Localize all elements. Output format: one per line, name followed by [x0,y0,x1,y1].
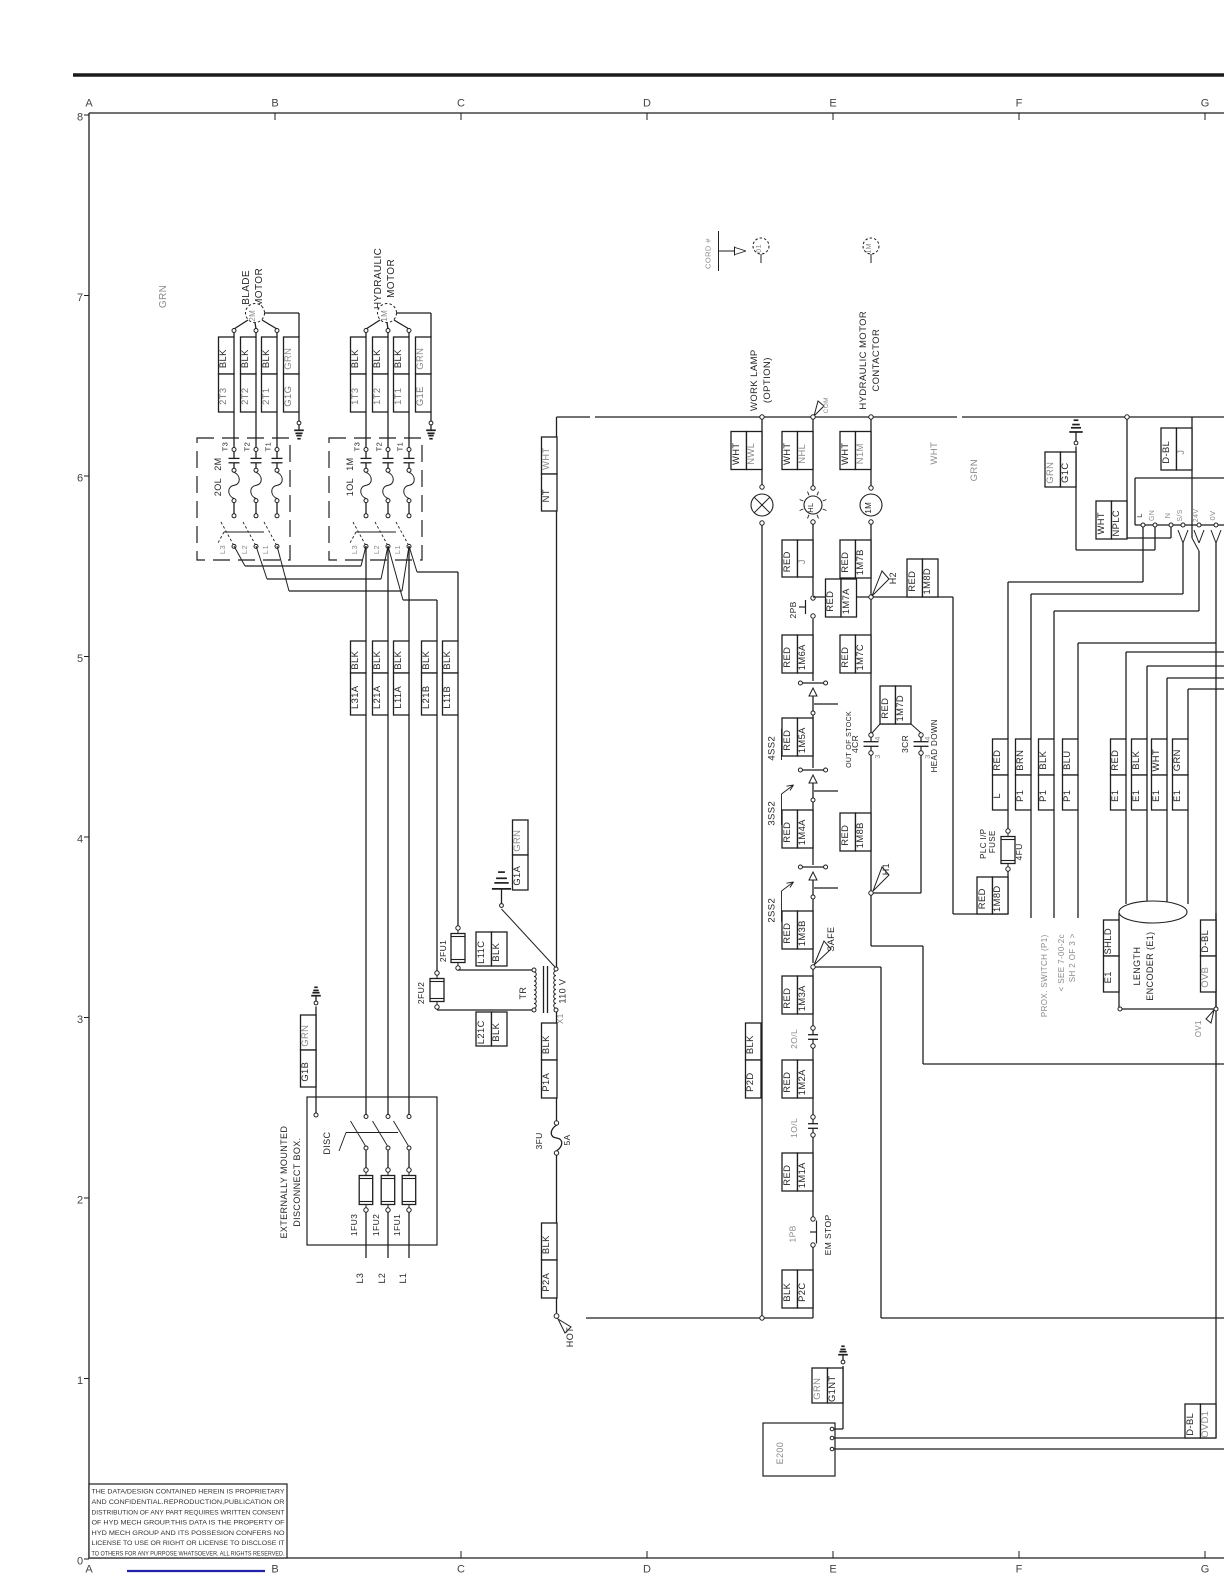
svg-text:T3: T3 [221,442,230,452]
wire hot bottom right [881,1317,1224,1319]
wire tag 2T3 BLK [217,332,234,447]
svg-text:CORD #: CORD # [704,238,713,269]
wire tag L11A BLK [392,546,409,1115]
svg-text:L3: L3 [350,545,359,554]
svg-text:RED: RED [781,1072,792,1093]
wire tag 1T1 BLK [392,332,409,447]
svg-text:1M8B: 1M8B [854,822,865,848]
svg-text:8: 8 [77,112,83,124]
svg-text:L2: L2 [377,1273,387,1284]
flag HOT [558,1319,575,1347]
wire tag P2D BLK [744,1023,761,1098]
wire 24V elbow [1054,551,1199,739]
svg-text:RED: RED [781,647,792,668]
svg-text:DISCONNECT BOX.: DISCONNECT BOX. [292,1137,302,1226]
svg-text:1M7D: 1M7D [894,695,905,722]
contact 2O/L [789,1026,818,1049]
svg-text:1M3A: 1M3A [796,985,807,1011]
wire tag G1G GRN [282,337,299,421]
selector switch 3SS2 [767,768,839,826]
svg-text:D-BL: D-BL [1184,1413,1195,1436]
fuse 3FU 5A [534,1121,572,1155]
svg-text:BLK: BLK [239,349,250,368]
svg-text:P1: P1 [1037,790,1048,802]
wire 0V elbow [1078,543,1216,1318]
svg-text:L: L [1135,513,1144,518]
svg-text:SHLD: SHLD [1102,928,1113,955]
disconnect DISC label [322,1131,332,1154]
wire H1 to right elbow [871,895,1224,1064]
wire tag G1A GRN [511,820,528,890]
wire 1O/L to 1M1A [812,1137,814,1217]
svg-text:1M4A: 1M4A [796,819,807,845]
flag COM [814,397,830,416]
wire tag NHL WHT [781,432,813,470]
wire tag 1M4A RED [781,810,813,848]
svg-text:1PB: 1PB [788,1225,798,1242]
wire tag 1M5A RED [781,718,813,756]
svg-text:L21B: L21B [420,685,431,709]
svg-text:3SS2: 3SS2 [767,801,778,826]
proprietary notice text block [89,1484,287,1558]
node H2 junction [869,595,873,599]
pushbutton 2PB [788,596,815,619]
motor 1M leads [364,320,411,333]
svg-text:C: C [457,1564,465,1576]
svg-text:2OL: 2OL [213,478,223,496]
svg-text:L31A: L31A [349,685,360,709]
svg-text:L21A: L21A [371,685,382,709]
svg-text:RED: RED [781,730,792,751]
wire 2O/L to 1M2A [812,1048,814,1115]
wire E200 ground lead [834,1428,843,1430]
svg-text:2T3: 2T3 [217,388,228,405]
connector S/S [1178,530,1188,543]
svg-text:7: 7 [77,292,83,304]
svg-text:BLK: BLK [371,349,382,368]
svg-text:BLK: BLK [441,650,452,669]
wire tag 1M3B RED [781,911,813,949]
wire tag J D-BL [1160,417,1192,470]
svg-text:BLK: BLK [392,349,403,368]
plc box outline [1135,478,1224,525]
wire tag 1M8D RED lower [976,877,1008,914]
svg-text:RED: RED [781,923,792,944]
wire HL to 2PB [812,524,814,595]
svg-text:P1: P1 [1061,790,1072,802]
svg-text:H1: H1 [881,863,891,875]
externally mounted disconnect box outline [307,1097,437,1245]
svg-text:HOT: HOT [565,1327,575,1347]
wire 3SS2 to 1M4A [812,802,814,865]
svg-text:BLK: BLK [392,650,403,669]
svg-text:E1: E1 [1150,790,1161,802]
label length encoder [1132,931,1155,1000]
svg-text:WHT: WHT [839,442,850,465]
cord balloon 1M [863,238,879,263]
svg-text:F: F [1016,98,1023,110]
svg-text:OV1: OV1 [1194,1020,1203,1037]
wire tag G1C GRN [1044,447,1076,551]
svg-text:AND CONFIDENTIAL.REPRODUCTION,: AND CONFIDENTIAL.REPRODUCTION,PUBLICATIO… [92,1499,285,1506]
svg-text:TO OTHERS FOR ANY PURPOSE WHAT: TO OTHERS FOR ANY PURPOSE WHATSOEVER. AL… [92,1551,285,1558]
svg-text:NT: NT [540,489,551,502]
svg-text:C: C [457,98,465,110]
svg-text:5: 5 [77,653,83,665]
wire tag 1M3A RED [781,976,813,1014]
wire jog L3 2M-1M [234,546,366,566]
externally mounted disconnect box label [279,1126,302,1239]
svg-text:ENCODER (E1): ENCODER (E1) [1145,931,1155,1000]
svg-text:WHT: WHT [730,442,741,465]
svg-text:BLK: BLK [349,650,360,669]
svg-text:2SS2: 2SS2 [767,898,778,923]
svg-text:RED: RED [839,552,850,573]
svg-text:P2A: P2A [540,1272,551,1291]
wire E1 grn elbow [1188,689,1224,739]
svg-text:BLK: BLK [540,1035,551,1054]
svg-text:RED: RED [906,571,917,592]
wire tag G1E GRN [414,337,431,421]
svg-text:110 V: 110 V [558,979,568,1004]
wire tag P1A BLK [540,1012,557,1121]
contactor 2M with overload 2OL [197,438,290,560]
wire G1A to secondary [502,909,556,967]
svg-text:P1A: P1A [540,1072,551,1091]
svg-text:2O/L: 2O/L [789,1029,799,1049]
cord balloon 01 [753,238,769,263]
wire tag J RED [781,540,813,577]
fuse 2FU1 [438,926,465,970]
svg-text:E1: E1 [1109,790,1120,802]
wire tag E1 WHT [1150,739,1167,904]
wire E1 wht elbow [1167,678,1224,739]
svg-text:2PB: 2PB [788,601,798,618]
svg-text:1M3B: 1M3B [796,920,807,946]
label OUT OF STOCK [846,711,853,768]
svg-text:WORK LAMP: WORK LAMP [749,349,760,411]
svg-text:G1B: G1B [299,1062,310,1082]
svg-text:WHT: WHT [540,447,551,470]
svg-text:1M: 1M [345,457,355,470]
svg-text:6: 6 [77,473,83,485]
pushbutton 1PB EM STOP [788,1214,834,1255]
svg-text:2: 2 [77,1195,83,1207]
flag SAFE [814,927,836,965]
fuse 4FU PLC I/P [979,829,1024,872]
svg-text:S/S: S/S [1177,509,1184,521]
svg-text:A: A [85,98,93,110]
node G1B box terminal [314,1113,318,1117]
svg-text:L3: L3 [355,1273,365,1284]
svg-text:L2: L2 [372,545,381,554]
svg-text:MOTOR: MOTOR [386,259,397,298]
wire tag 1M7A RED [824,579,856,617]
svg-text:G1G: G1G [282,386,293,407]
svg-text:4FU: 4FU [1014,843,1024,860]
svg-text:BLK: BLK [217,349,228,368]
wire tag P1 BRN [1014,739,1031,918]
hydraulic motor label [373,248,397,309]
svg-text:BLK: BLK [781,1282,792,1301]
svg-text:< SEE 7-00-2c: < SEE 7-00-2c [1057,934,1066,991]
svg-text:RED: RED [824,591,835,612]
border thick top rule [73,73,1224,77]
wire 1M drop [870,419,872,486]
svg-text:E1: E1 [1102,971,1113,983]
svg-text:N1M: N1M [854,443,865,464]
wire tag L31A BLK [349,546,366,1115]
wire jog L1 2M-1M [277,546,409,591]
svg-text:D-BL: D-BL [1199,930,1210,953]
svg-text:1M7C: 1M7C [854,644,865,671]
wire tag N1M WHT [839,432,871,470]
svg-text:1M: 1M [864,502,873,514]
svg-text:E200: E200 [775,1442,785,1465]
svg-text:P2D: P2D [744,1072,755,1091]
wire 4CR down [870,755,872,891]
svg-text:RED: RED [991,750,1002,771]
svg-text:E: E [829,98,836,110]
svg-text:T3: T3 [353,442,362,452]
svg-text:NHL: NHL [796,444,807,464]
svg-text:2T2: 2T2 [239,388,250,405]
selector switch 2SS2 [767,865,839,923]
svg-text:T1: T1 [264,442,273,452]
flag OV1 [1194,1010,1214,1037]
node H1 junction [869,891,873,895]
contactor 1M with overload 1OL [329,438,422,560]
wire E1 blk elbow [1147,666,1224,739]
svg-text:G1A: G1A [511,865,522,885]
svg-text:1M6A: 1M6A [796,644,807,670]
svg-text:GN: GN [1149,510,1156,521]
wire 2PB branch [813,596,869,598]
blade motor label [241,268,265,307]
svg-text:1M7A: 1M7A [840,588,851,614]
svg-text:EM STOP: EM STOP [823,1214,833,1255]
svg-text:RED: RED [781,551,792,572]
node hot junction work lamp [760,1316,764,1320]
label work lamp option [749,349,773,411]
ground G1C [1069,420,1082,445]
svg-text:3: 3 [77,1014,83,1026]
wire 2PB to 1M6A [812,619,814,681]
svg-text:1M8D: 1M8D [991,885,1002,912]
wire tag 1M1A RED [781,1153,813,1191]
wire N loop [1127,527,1171,538]
blue revision underline [127,1570,265,1572]
wire E200 output [834,1448,1224,1450]
motor 2M [246,304,265,323]
disconnect switch DISC poles with fuses 1FU1-1FU3 [349,1115,416,1284]
svg-text:BLADE: BLADE [241,270,252,305]
svg-text:G1C: G1C [1059,462,1070,482]
svg-text:GRN: GRN [1171,749,1182,771]
svg-text:1FU2: 1FU2 [371,1214,381,1236]
svg-text:RED: RED [781,988,792,1009]
svg-text:L11A: L11A [392,685,403,708]
wire E200 OVD1 [834,1318,1216,1438]
wire 2SS2 to safe node [812,899,814,963]
svg-text:4: 4 [873,736,882,741]
wire tag 1T3 BLK [349,332,366,447]
svg-text:BRN: BRN [1014,750,1025,771]
ground G1A [492,872,511,907]
svg-text:BLK: BLK [1037,750,1048,769]
plc terminals L GN N S/S 24V 0V [1135,509,1218,527]
svg-text:L3: L3 [218,545,227,554]
fuse 2FU2 [416,971,444,1009]
svg-text:0: 0 [77,1556,83,1568]
wire tag G1NT GRN [811,1366,843,1429]
svg-text:01: 01 [756,244,763,253]
svg-text:EXTERNALLY MOUNTED: EXTERNALLY MOUNTED [279,1126,289,1239]
svg-text:2M: 2M [213,457,223,470]
svg-text:BLK: BLK [744,1035,755,1054]
svg-text:BLK: BLK [1130,750,1141,769]
svg-text:GRN: GRN [299,1025,310,1047]
wire PLC L elbow [1008,527,1143,582]
rail neutral left [556,417,558,967]
svg-text:BLK: BLK [260,349,271,368]
svg-text:GRN: GRN [969,459,980,481]
contact 3CR pins 3-4 [900,733,932,759]
wire jog L21B [388,546,437,641]
node 1M bus junction [869,415,873,419]
wire tag P1 BLU [1061,739,1078,918]
svg-text:L1: L1 [398,1273,408,1284]
svg-text:0V: 0V [1208,511,1217,521]
node HL bus junction [811,415,815,419]
svg-text:1M5A: 1M5A [796,727,807,753]
svg-text:1M1A: 1M1A [796,1162,807,1188]
svg-text:G: G [1201,98,1210,110]
wire 1M8D net [873,597,1008,914]
svg-text:HYDRAULIC MOTOR: HYDRAULIC MOTOR [858,311,869,410]
wire tag NWL WHT [730,432,762,470]
wire jog L2 2M-1M [256,546,388,579]
svg-text:L11C: L11C [475,941,486,964]
svg-text:3FU: 3FU [534,1132,544,1149]
svg-text:J: J [1175,450,1186,455]
ground G1E [426,421,436,439]
wire hot bottom left [586,1317,813,1319]
svg-text:WHT: WHT [1150,749,1161,772]
svg-text:P2C: P2C [796,1282,807,1301]
svg-text:4: 4 [77,834,83,846]
coil 1M contactor [860,486,882,524]
wire tag 1M6A RED [781,635,813,673]
svg-text:RED: RED [781,1165,792,1186]
wire safe chain down [812,969,814,1026]
wire tag E1 RED [1109,739,1126,904]
svg-text:1T3: 1T3 [349,388,360,405]
svg-text:1T1: 1T1 [392,388,403,405]
svg-text:2M: 2M [248,310,257,322]
wire work lamp drop [761,419,763,485]
svg-text:MOTOR: MOTOR [254,268,265,307]
svg-text:T1: T1 [396,442,405,452]
wire S/S elbow [1031,543,1183,739]
ground G1G [294,421,304,439]
wire tag OVD1 D-BL [1184,1404,1216,1438]
svg-text:HYD MECH GROUP AND ITS POSSESI: HYD MECH GROUP AND ITS POSSESION CONFERS… [92,1530,285,1537]
svg-text:HYDRAULIC: HYDRAULIC [373,248,384,309]
svg-text:T2: T2 [243,442,252,452]
wire work lamp return [761,525,763,1318]
svg-text:CONTACTOR: CONTACTOR [871,329,882,392]
svg-text:3CR: 3CR [900,735,910,753]
svg-text:B: B [271,1564,278,1576]
node SAFE junction [811,965,815,969]
svg-text:N: N [1163,513,1172,519]
svg-text:E1: E1 [1130,790,1141,802]
wire tag 1T2 BLK [371,332,388,447]
svg-text:1: 1 [77,1375,83,1387]
svg-text:GRN: GRN [511,830,522,852]
svg-text:E1: E1 [1171,790,1182,802]
svg-text:H2: H2 [888,572,898,584]
lamp WL work lamp [751,485,773,525]
ruler row numbers 8-0 [77,112,89,1568]
svg-text:BLK: BLK [490,1022,501,1041]
svg-text:1OL: 1OL [345,478,355,496]
svg-text:1M: 1M [866,243,873,254]
label hydraulic motor contactor [858,311,882,410]
selector switch 4SS2 [767,681,839,761]
wire tag L21B BLK [420,641,437,971]
svg-text:4CR: 4CR [850,735,860,753]
wire tag OVB D-BL [1199,920,1216,992]
wire tag 1M7C RED [839,635,871,673]
svg-text:3: 3 [873,754,882,759]
device E200 [763,1423,835,1476]
label WHT neutral [929,442,940,465]
svg-text:BLK: BLK [540,1235,551,1254]
svg-text:A: A [85,1564,93,1576]
svg-text:1T2: 1T2 [371,388,382,405]
ground G1NT [838,1346,848,1364]
svg-text:L2: L2 [240,545,249,554]
svg-text:4SS2: 4SS2 [767,736,778,761]
transformer TR [518,966,568,1024]
svg-text:GRN: GRN [282,348,293,370]
wire tag G1B GRN [299,1007,316,1116]
svg-text:24V: 24V [1193,509,1200,523]
svg-text:(OPTION): (OPTION) [762,357,773,403]
svg-text:GRN: GRN [811,1378,822,1400]
svg-text:1M8D: 1M8D [921,568,932,595]
label GRN note [969,459,980,481]
node HOT terminal [554,1314,559,1319]
wire E1 red elbow [1126,652,1224,739]
svg-text:G1E: G1E [414,386,425,406]
svg-text:NWL: NWL [745,443,756,465]
wire tag L RED [991,582,1008,810]
motor 2M leads [232,320,279,333]
svg-text:HEAD DOWN: HEAD DOWN [930,719,939,772]
wire tag 1M7B RED [839,540,871,578]
wire tag L11B BLK [441,641,458,926]
svg-text:WHT: WHT [781,442,792,465]
svg-text:BLK: BLK [490,942,501,961]
label PROX SWITCH P1 [1040,933,1077,1017]
svg-text:RED: RED [879,698,890,719]
label GRN (top left note) [158,285,169,308]
bus neutral top [557,416,1224,418]
wire tag SHLD E1 [1102,920,1119,992]
